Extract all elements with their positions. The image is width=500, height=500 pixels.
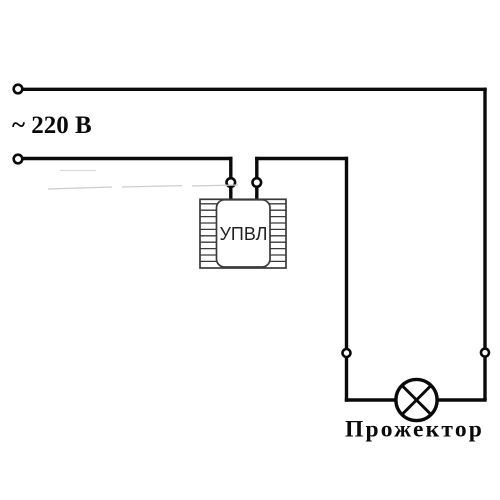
svg-text:~ 220 В: ~ 220 В <box>12 112 92 139</box>
UPVL inner rounded body <box>217 200 271 267</box>
wire: horizontal run from pin 2 riser to lamp branch <box>255 157 348 160</box>
wire: pin 1 stub into UPVL body <box>229 187 232 200</box>
wire: vertical below terminal X3 <box>345 357 348 402</box>
wire: drop to UPVL pin 1 <box>229 157 232 178</box>
wire: right vertical drop from top run <box>483 88 486 349</box>
wire: lamp branch vertical drop <box>345 157 348 349</box>
terminal X1 (line input) <box>14 85 23 94</box>
wire: pin 2 stub into UPVL body <box>255 187 258 200</box>
lamp EL1 cross stroke 2 <box>402 386 431 415</box>
pin 1 circle of UPVL <box>227 178 236 187</box>
wire: riser from UPVL pin 2 <box>255 157 258 178</box>
UPVL right hatch lines <box>269 204 286 262</box>
UPVL box outer frame <box>200 199 286 268</box>
wire: bottom left horizontal to lamp <box>345 398 396 401</box>
terminal X4 (lamp circuit right) <box>481 349 489 357</box>
wire: second supply horizontal run to UPVL <box>23 157 233 160</box>
wire: top supply horizontal run <box>23 88 487 91</box>
UPVL left hatch lines <box>200 204 217 262</box>
wire (faint erased trace artifact) <box>48 171 238 190</box>
svg-text:Прожектор: Прожектор <box>345 416 484 442</box>
svg-text:УПВЛ: УПВЛ <box>220 224 268 244</box>
pin 2 circle of UPVL <box>252 178 261 187</box>
lamp EL1 (projector) circle <box>396 379 437 420</box>
lamp EL1 cross stroke 1 <box>402 386 431 415</box>
wire: right vertical below terminal X4 <box>483 357 486 400</box>
terminal X2 (line input) <box>14 155 23 164</box>
terminal X3 (lamp circuit left) <box>343 349 351 357</box>
wire: bottom right horizontal to lamp <box>437 398 486 401</box>
